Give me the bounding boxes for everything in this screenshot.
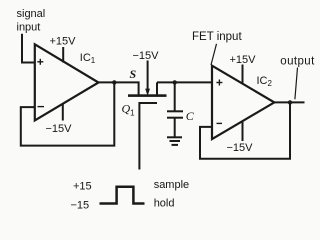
svg-text:hold: hold: [154, 197, 175, 209]
svg-text:sample: sample: [154, 179, 189, 191]
svg-text:C: C: [186, 109, 195, 123]
svg-text:FET input: FET input: [192, 31, 242, 43]
svg-text:−15V: −15V: [133, 50, 160, 62]
svg-text:signal: signal: [17, 8, 46, 20]
svg-text:−15V: −15V: [227, 142, 254, 154]
svg-text:−15V: −15V: [46, 123, 73, 135]
svg-text:S: S: [130, 67, 137, 81]
svg-text:+15: +15: [73, 181, 92, 193]
svg-text:+15V: +15V: [230, 54, 257, 66]
svg-text:output: output: [280, 56, 315, 68]
svg-text:input: input: [17, 21, 41, 33]
svg-text:−15: −15: [71, 199, 90, 211]
svg-text:+15V: +15V: [50, 36, 77, 48]
